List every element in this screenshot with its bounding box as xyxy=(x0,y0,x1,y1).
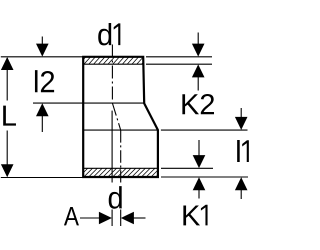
dimension K1 arrow top (down) xyxy=(198,140,200,157)
bottom edge extension left xyxy=(1,177,83,179)
dimension l2 arrow top (down) xyxy=(41,37,43,46)
centerline d1 (dash-dot) xyxy=(111,45,113,104)
label L xyxy=(3,106,16,126)
dimension l2 arrow bottom (up) xyxy=(41,115,43,132)
hatch band bottom (socket wall d) xyxy=(78,168,165,179)
dimension A arrow right (points left) xyxy=(133,217,146,219)
hatch band top bottom line xyxy=(83,63,143,65)
dimension L arrow up xyxy=(1,57,14,70)
extension line A right xyxy=(120,210,122,227)
shoulder line upper xyxy=(33,102,144,104)
bottom edge extension right xyxy=(161,176,248,178)
top edge extension right xyxy=(146,56,212,58)
hatch band bottom top line xyxy=(83,167,158,169)
dimension K1 arrow bottom (up) xyxy=(198,189,200,199)
dimension L arrow down xyxy=(1,164,14,177)
centerline d (dash-dot) xyxy=(120,130,122,182)
dimension L line xyxy=(6,58,8,101)
dimension l1 arrow bottom (up) xyxy=(240,189,242,199)
label d1 xyxy=(98,23,120,45)
label K2 xyxy=(182,94,214,114)
centerline transition (dash-dot slanted) xyxy=(112,103,120,130)
dimension K2 arrow bottom (up) xyxy=(197,76,199,91)
extension line A left (top centerline extended) xyxy=(111,111,113,183)
band2 top extension right xyxy=(161,167,213,169)
label d xyxy=(109,186,122,209)
label l1 xyxy=(237,140,249,162)
dimension l1 arrow top (down) xyxy=(240,108,242,118)
dimension K2 arrow top (down) xyxy=(197,33,199,46)
hatch band top (spigot wall d1) xyxy=(78,56,149,66)
top edge extension left xyxy=(1,56,83,58)
label A xyxy=(64,207,79,225)
dimension A arrow left (points right) xyxy=(80,217,100,219)
label K1 xyxy=(183,205,207,226)
label l2 xyxy=(35,70,54,92)
shoulder line lower + extension right xyxy=(83,129,158,131)
reducer body outline xyxy=(83,57,158,177)
band1 bottom extension right xyxy=(146,63,212,65)
